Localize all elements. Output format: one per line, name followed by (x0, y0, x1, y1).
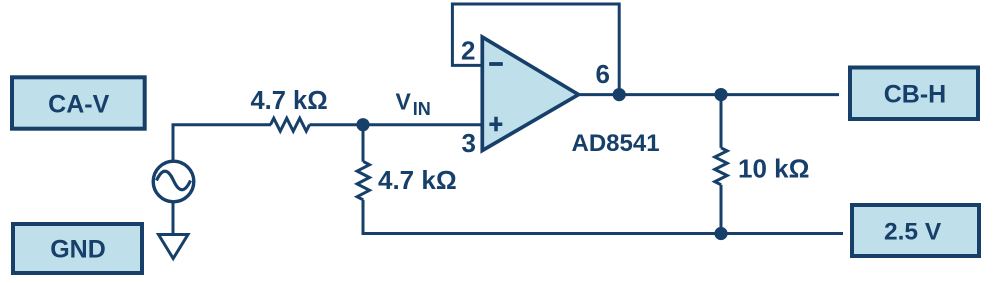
op-amp U1 AD8541 (482, 37, 578, 151)
ground (159, 235, 189, 259)
wire source corner to resistor R1 (173, 125, 271, 127)
resistor R2 4.7 kOhm vertical (357, 162, 369, 200)
svg-text:4.7 kΩ: 4.7 kΩ (378, 165, 457, 195)
node GND terminal box (13, 224, 142, 273)
node CA-V terminal box (12, 77, 145, 128)
svg-text:2: 2 (461, 35, 475, 65)
svg-text:10 kΩ: 10 kΩ (738, 153, 809, 183)
node VIN label (396, 88, 431, 119)
wire output node down to resistor R3 (720, 95, 723, 148)
node output junction dot (613, 88, 626, 101)
svg-text:IN: IN (413, 99, 431, 119)
node bottom rail junction dot (714, 227, 727, 240)
wire VIN node down to resistor R2 (362, 125, 365, 162)
wire feedback loop pin6 to pin2 (452, 4, 619, 95)
wire source to ground (172, 202, 175, 234)
svg-text:6: 6 (596, 59, 610, 89)
wire R2 to bottom rail (362, 200, 365, 234)
svg-text:CA-V: CA-V (48, 91, 109, 119)
resistor R3 10 kOhm vertical (715, 148, 727, 185)
svg-text:2.5 V: 2.5 V (884, 218, 942, 245)
node 10k top junction dot (714, 88, 727, 101)
svg-text:V: V (396, 88, 412, 114)
node 2.5 V terminal box (852, 205, 979, 256)
wire R3 to bottom rail (720, 185, 723, 234)
svg-text:GND: GND (50, 236, 106, 264)
node VIN junction dot (356, 118, 369, 131)
wire R1 to op-amp non-inverting input (309, 123, 481, 126)
svg-text:CB-H: CB-H (884, 80, 947, 108)
wire source vertical drop (172, 125, 175, 162)
node CB-H terminal box (850, 68, 978, 120)
resistor R1 4.7 kOhm horizontal (271, 118, 310, 131)
svg-text:3: 3 (462, 128, 476, 158)
source V1 sine generator (153, 161, 194, 202)
wire bottom rail to 2.5 V (363, 232, 843, 234)
svg-text:AD8541: AD8541 (572, 130, 660, 157)
wire op-amp output to CB-H (578, 93, 839, 96)
svg-text:4.7 kΩ: 4.7 kΩ (251, 87, 328, 115)
